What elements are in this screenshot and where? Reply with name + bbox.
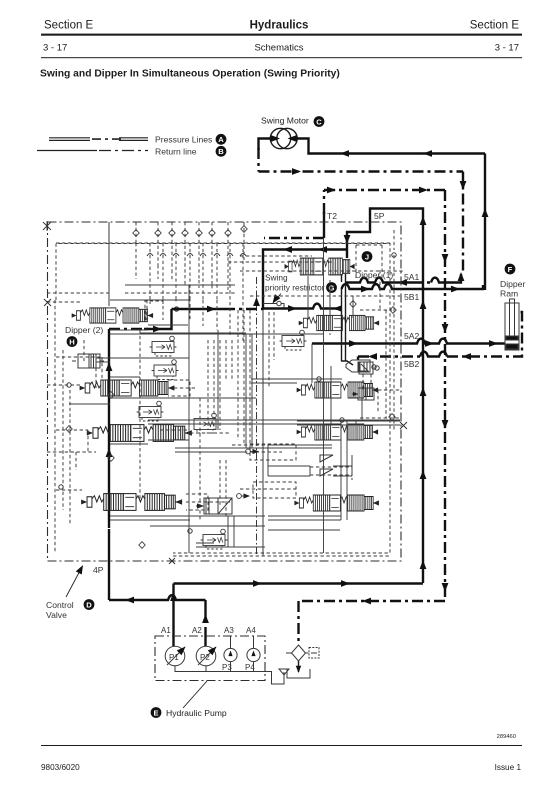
wire: P2 line y600 [109,595,206,600]
filter [292,645,306,661]
header rule top [41,34,522,36]
svg-text:Hydraulics: Hydraulics [250,20,309,32]
svg-text:E: E [153,708,158,717]
svg-text:B: B [218,147,224,156]
badge C [314,116,325,127]
wire: T2 gallery left y238 [264,237,324,239]
svg-text:289460: 289460 [497,734,516,740]
spool: right mid [297,382,378,398]
pilot line y296 [250,295,400,297]
pump P1 [165,646,185,666]
svg-text:9803/6020: 9803/6020 [41,763,80,772]
svg-text:F: F [508,265,513,274]
svg-text:P2: P2 [200,653,210,662]
pilot crossing bumps [147,254,246,257]
footer rule [41,745,522,746]
svg-text:Return line: Return line [155,146,197,156]
wire: pilot staircase to spool caps [150,296,243,342]
relief valve 4 [190,413,219,433]
svg-text:5A2: 5A2 [404,331,420,341]
strainer [279,669,289,677]
wire: swing branch y249.5 [263,250,347,309]
wire: motor left port down [259,139,272,151]
svg-text:A1: A1 [161,626,171,635]
wire: secondary pilot lines (dashed) [76,270,386,516]
wire: pump P1 supply y583.5 [174,582,424,584]
dipper ram [505,299,519,350]
wire: 5P supply riser x423 [347,209,423,584]
wire: secondary interconnect lines [96,330,400,547]
check with arrow 2 [237,493,250,498]
badge H [67,336,78,347]
orifice restrictors (circles) [59,253,396,533]
svg-text:A3: A3 [224,626,234,635]
wire: filter drop x298 [297,601,299,644]
pump block boundary [155,636,265,681]
wire: return to filter y601 [299,600,446,602]
badge E [151,707,162,718]
swing motor symbol [270,128,297,148]
wire: motor return down x463 [462,172,464,273]
svg-text:3 - 17: 3 - 17 [43,43,67,54]
svg-text:4P: 4P [93,565,104,575]
left aux valve [72,354,104,368]
spool: row2 [80,380,175,396]
svg-text:A2: A2 [192,626,202,635]
spool: swing priority [285,258,355,275]
badge G [326,282,337,293]
spool: row3 [87,425,192,442]
relief valve 1 [148,336,177,356]
wire: P2 riser [204,600,206,612]
wire: swing spool riser x263 lower [262,309,264,557]
pump leader [183,681,207,708]
restrictor leader arrow [274,294,282,303]
wire: pump case drain to tank [266,672,285,685]
wire: swing feed y309 [172,308,225,310]
wire: return main down x445 [444,190,446,601]
wire: dipper2 to swing feed riser [109,328,148,330]
svg-text:H: H [69,337,74,346]
swing pilot valve [196,498,232,514]
wire: motor supply y153 [297,139,486,154]
spool: right J valve [299,315,379,330]
svg-text:Ram: Ram [500,289,518,299]
check with arrow 1 [246,449,259,454]
wire: T2 return out y190 [324,189,445,191]
relief valve 6 [278,330,307,350]
inner dashed frame [56,244,390,554]
svg-text:Section E: Section E [44,20,94,32]
svg-text:P1: P1 [169,653,179,662]
svg-text:C: C [316,117,322,126]
spool: dipper2 [72,308,153,323]
svg-text:5B2: 5B2 [404,359,420,369]
wire: filter to tank [298,661,300,672]
small pilot block right [352,388,374,400]
filter bypass valve [309,648,319,659]
svg-text:5A1: 5A1 [404,272,420,282]
svg-text:Dipper (1): Dipper (1) [355,270,393,280]
wire: pilot gallery horizontals (dashed) [47,243,404,556]
svg-text:Hydraulic Pump: Hydraulic Pump [166,708,227,718]
svg-text:G: G [329,283,335,292]
wire: 5B2 y356 [357,357,359,361]
badge B [216,146,227,157]
wire: pilot gallery verticals (dashed) [55,230,394,553]
dashed pilot boxes [145,245,382,510]
svg-text:Issue 1: Issue 1 [495,763,522,772]
svg-text:Valve: Valve [46,610,67,620]
svg-text:Dipper (2): Dipper (2) [65,325,103,335]
check valves (diamonds) [390,307,396,314]
relief valve 2 [150,360,179,380]
check valve row [133,226,247,237]
svg-text:J: J [365,252,369,261]
badge F [505,264,516,275]
pump P4 [247,648,260,661]
relief valve 5 [199,529,228,549]
wire: check-valve pilot drop lines [136,222,244,302]
plugged ports (cross marks) [44,299,51,306]
wire: T2 riser x324 [323,212,325,238]
spool: right row3 [297,424,378,440]
junction circle [174,307,178,311]
svg-text:3 - 17: 3 - 17 [495,43,519,54]
svg-text:Dipper: Dipper [500,279,525,289]
svg-text:A: A [218,135,224,144]
control valve boundary [48,222,402,561]
svg-text:5P: 5P [374,211,385,221]
svg-text:Control: Control [46,600,74,610]
badge D [84,599,95,610]
anti-cavitation check J assembly [342,274,346,361]
svg-text:T2: T2 [327,211,337,221]
badge A [216,134,227,145]
spool: right row4 [294,495,378,511]
wire: P1 riser [172,584,174,647]
pump P3 [224,648,237,661]
wire: 4P riser x109 [108,540,110,600]
pump internal drain [175,636,266,672]
svg-text:Section E: Section E [470,20,520,32]
svg-text:A4: A4 [246,626,256,635]
svg-text:5B1: 5B1 [404,292,420,302]
wire: 5A1 y283 [346,278,413,283]
header rule bottom [41,57,522,58]
wire: x109 top thin [108,222,110,306]
svg-text:Schematics: Schematics [254,43,303,54]
wire: service interconnect lines [69,238,400,553]
wire: motor supply up x485 [484,154,486,291]
svg-text:Swing: Swing [265,273,288,283]
solenoid pilot box [359,362,379,374]
wire: 5B1 y291 [342,284,484,289]
legend: pressure line sample [49,138,148,141]
wire: 5A2 y343 [312,339,505,344]
tank [287,669,310,678]
spool: row4 [81,494,182,511]
badge J [362,251,373,262]
restrictor branch [263,303,277,305]
relief valve 3 [135,401,164,421]
svg-text:D: D [86,600,92,609]
legend: return line sample [37,150,97,152]
svg-text:Swing and Dipper In Simultaneo: Swing and Dipper In Simultaneous Operati… [40,69,340,80]
svg-text:Pressure Lines: Pressure Lines [155,134,212,144]
svg-text:Swing Motor: Swing Motor [261,116,309,126]
plug mark top-left [43,221,51,231]
pump P2 [196,646,216,666]
makeup check bowties [320,455,333,462]
svg-text:priority restrictor: priority restrictor [265,283,325,293]
wire: motor return right along y172 [259,170,464,172]
control valve leader [66,567,82,597]
wire: swing spool riser x256 [256,277,258,556]
